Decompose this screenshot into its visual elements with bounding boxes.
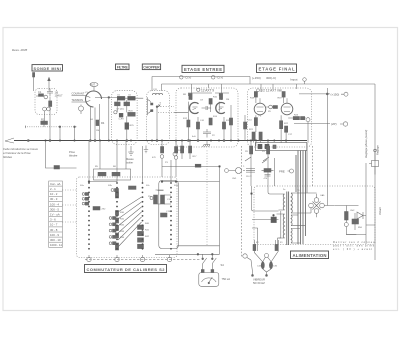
svg-text:P9: P9: [262, 151, 265, 153]
svg-text:R12: R12: [183, 118, 188, 120]
svg-text:P6: P6: [259, 116, 262, 118]
svg-text:10 - 7: 10 - 7: [50, 223, 58, 227]
svg-text:R25: R25: [130, 125, 135, 127]
svg-text:COURANT: COURANT: [72, 92, 85, 96]
svg-text:AU7: AU7: [90, 83, 96, 87]
svg-text:R40: R40: [145, 223, 150, 225]
svg-text:C9: C9: [200, 100, 204, 102]
svg-text:C-R: C-R: [200, 120, 204, 122]
svg-text:R23: R23: [294, 115, 299, 117]
svg-text:300 - 5: 300 - 5: [50, 207, 59, 211]
svg-text:470: 470: [152, 157, 156, 159]
svg-text:100 - 4: 100 - 4: [50, 202, 59, 206]
svg-text:R6: R6: [113, 166, 117, 168]
svg-text:Reglage phase (avant): Reglage phase (avant): [364, 130, 368, 158]
svg-text:S4: S4: [221, 263, 225, 267]
svg-text:1V - uA: 1V - uA: [50, 213, 60, 217]
svg-text:S2a: S2a: [80, 185, 85, 187]
svg-text:S: S: [160, 103, 162, 105]
svg-text:2x: 2x: [283, 189, 286, 191]
svg-text:Cal - uA: Cal - uA: [50, 182, 61, 186]
svg-text:TENSION: TENSION: [72, 98, 84, 102]
svg-text:R30: R30: [120, 212, 125, 214]
svg-text:R19: R19: [278, 98, 283, 100]
svg-text:R17: R17: [193, 156, 198, 158]
svg-text:12AU7: 12AU7: [55, 94, 63, 98]
svg-text:R31: R31: [120, 218, 125, 220]
svg-text:CH1: CH1: [232, 178, 237, 180]
svg-text:ALIMENTATION: ALIMENTATION: [293, 253, 327, 258]
svg-text:R50: R50: [358, 227, 363, 229]
svg-text:P8: P8: [245, 151, 248, 153]
svg-text:R41: R41: [145, 229, 150, 231]
svg-text:ETAGE ENTREE: ETAGE ENTREE: [184, 67, 222, 72]
svg-text:1/2 12 AX7 min: 1/2 12 AX7 min: [261, 89, 283, 93]
svg-text:C-R9: C-R9: [119, 119, 125, 121]
svg-text:C17: C17: [288, 134, 293, 136]
svg-text:Prise: Prise: [69, 150, 75, 154]
svg-text:OA5: OA5: [320, 194, 325, 197]
svg-text:R14: R14: [213, 116, 218, 118]
svg-text:C19: C19: [166, 211, 171, 213]
svg-text:R22: R22: [284, 123, 289, 125]
svg-text:1000 - 11: 1000 - 11: [50, 243, 62, 247]
svg-text:4n5: 4n5: [192, 136, 196, 138]
svg-text:S2d: S2d: [174, 185, 179, 187]
svg-text:R21: R21: [249, 129, 254, 131]
svg-text:12 AXT 9: 12 AXT 9: [201, 88, 214, 92]
svg-text:R5: R5: [95, 166, 99, 168]
svg-text:T1: T1: [297, 190, 300, 192]
svg-text:300 - 10: 300 - 10: [50, 238, 61, 242]
svg-text:S2c: S2c: [146, 185, 151, 187]
svg-text:R8: R8: [183, 94, 187, 96]
svg-text:1M: 1M: [226, 99, 229, 101]
svg-text:P3: P3: [165, 162, 168, 164]
svg-text:470: 470: [264, 178, 268, 180]
svg-text:Volant: Volant: [378, 207, 382, 215]
svg-text:PRE: PRE: [279, 170, 285, 174]
svg-text:Imput: Imput: [290, 78, 298, 82]
svg-text:blindee: blindee: [69, 153, 78, 157]
svg-text:C7 (4n): C7 (4n): [116, 108, 124, 110]
svg-text:(+150): (+150): [252, 76, 261, 80]
svg-text:10 - 2: 10 - 2: [50, 192, 58, 196]
svg-text:(2P): (2P): [331, 122, 337, 126]
svg-text:30 - 3: 30 - 3: [50, 197, 58, 201]
svg-text:S2b: S2b: [108, 185, 113, 187]
svg-text:30 - 8: 30 - 8: [50, 228, 58, 232]
svg-text:ext. ( 6V ) + avant: ext. ( 6V ) + avant: [333, 248, 372, 251]
svg-text:VIBREUR: VIBREUR: [253, 278, 265, 282]
svg-text:COMMUTATEUR DE CALIBRES S2: COMMUTATEUR DE CALIBRES S2: [87, 267, 166, 272]
svg-text:1M: 1M: [96, 130, 99, 132]
svg-text:blindee: blindee: [3, 155, 12, 159]
svg-text:-C(+): -C(+): [184, 76, 191, 80]
svg-text:R33: R33: [120, 231, 125, 233]
svg-text:3 - 6: 3 - 6: [50, 218, 56, 222]
svg-text:CH2: CH2: [350, 210, 355, 212]
svg-text:R1: R1: [41, 117, 45, 121]
svg-text:750 uA: 750 uA: [222, 277, 231, 281]
svg-text:ETAGE FINAL: ETAGE FINAL: [259, 67, 295, 72]
svg-text:SONDE MINI: SONDE MINI: [34, 67, 62, 71]
svg-text:100 - 9: 100 - 9: [50, 233, 59, 237]
svg-text:C14: C14: [248, 120, 253, 122]
svg-text:R32: R32: [120, 225, 125, 227]
svg-text:-C(+): -C(+): [216, 76, 223, 80]
svg-text:ZD: ZD: [268, 111, 271, 113]
svg-text:50/ 60 HZ: 50/ 60 HZ: [253, 281, 265, 285]
svg-text:C1: C1: [38, 90, 42, 94]
svg-text:P2: P2: [212, 135, 215, 137]
svg-text:a: a: [243, 166, 245, 168]
svg-text:2K2: 2K2: [102, 209, 107, 211]
svg-text:2 - 1: 2 - 1: [50, 187, 56, 191]
svg-text:300(-C): 300(-C): [266, 76, 276, 80]
svg-text:CHOPPER: CHOPPER: [143, 66, 160, 70]
svg-text:R42: R42: [145, 236, 150, 238]
svg-text:R10: R10: [213, 97, 218, 99]
svg-text:F1: F1: [280, 242, 283, 244]
svg-text:boitier: boitier: [126, 160, 133, 164]
svg-text:FILTRE: FILTRE: [117, 66, 129, 70]
svg-text:Dess. 2635: Dess. 2635: [12, 48, 28, 52]
svg-text:C18: C18: [167, 199, 172, 201]
svg-text:C35: C35: [273, 266, 278, 268]
svg-text:Masse: Masse: [126, 157, 134, 161]
svg-text:R18: R18: [250, 98, 255, 100]
svg-text:R4: R4: [101, 121, 105, 125]
svg-text:(+150): (+150): [331, 92, 340, 96]
